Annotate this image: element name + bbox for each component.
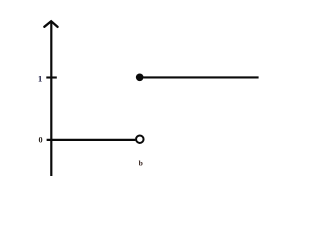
y-axis arrowhead: [44, 21, 57, 27]
wire: segment at level 0 from axis tick to open circle: [47, 139, 136, 141]
svg-text:0: 0: [39, 136, 43, 145]
y-axis shaft: [50, 21, 52, 176]
svg-text:1: 1: [38, 73, 42, 83]
tick at y=1: [46, 76, 57, 78]
node: filled dot at (b,1): [136, 73, 144, 81]
wire: segment at level 1 from dot to right edge: [143, 76, 258, 78]
node: open circle at (b,0): [136, 135, 144, 143]
svg-text:b: b: [139, 159, 143, 168]
